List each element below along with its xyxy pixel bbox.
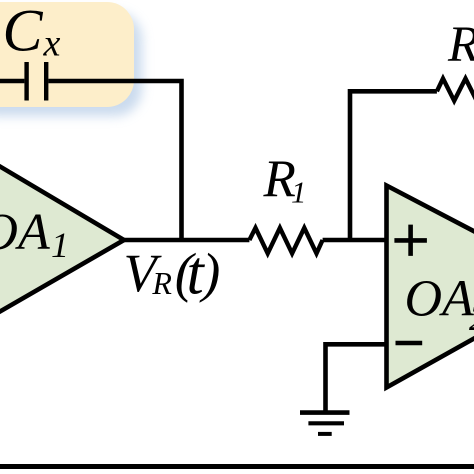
minus input mark [396, 341, 423, 346]
resistor R1 [249, 228, 322, 254]
op-amp OA1 [0, 119, 124, 358]
label OA1 [0, 204, 69, 265]
svg-text:OA: OA [405, 270, 474, 327]
svg-text:2: 2 [469, 298, 474, 338]
capacitor Cx [0, 62, 46, 101]
svg-text:x: x [43, 23, 61, 65]
label OA2 [405, 270, 474, 338]
resistor R (feedback) [437, 79, 474, 101]
highlight box shadow [0, 12, 142, 116]
label VR(t) [124, 240, 221, 308]
ground [300, 413, 350, 434]
feedback wire up from node to resistor R [350, 91, 437, 242]
label Cx [3, 0, 61, 65]
svg-text:OA: OA [0, 204, 50, 261]
highlight box [0, 2, 134, 107]
svg-text:1: 1 [291, 175, 307, 210]
svg-text:R: R [447, 17, 474, 73]
label R1 [263, 150, 307, 210]
op-amp OA2 [387, 186, 474, 388]
wire OA1 output to R1, node VR [124, 238, 249, 243]
figure border bottom [0, 464, 474, 469]
wire from Cx to node VR (top corner) [48, 81, 181, 240]
plus input mark [394, 225, 427, 256]
svg-text:1: 1 [51, 225, 69, 265]
svg-text:R: R [151, 265, 172, 301]
svg-text:): ) [199, 242, 220, 303]
wire R1 to OA2 + input [323, 238, 387, 243]
inverting input wire to ground [326, 344, 387, 411]
svg-text:C: C [3, 0, 44, 64]
